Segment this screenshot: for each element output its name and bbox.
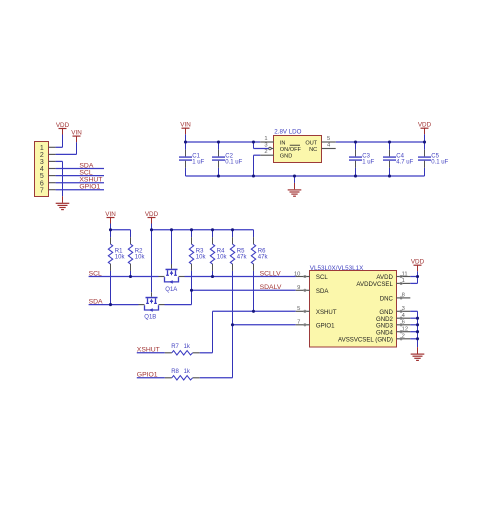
svg-text:R3: R3: [196, 249, 204, 255]
svg-text:GPIO1: GPIO1: [79, 184, 100, 191]
svg-text:R2: R2: [135, 249, 143, 255]
svg-text:SDALV: SDALV: [260, 284, 282, 291]
svg-text:R8: R8: [171, 369, 179, 375]
svg-text:7: 7: [40, 187, 44, 194]
svg-text:10k: 10k: [135, 255, 146, 261]
svg-text:ON/OFF: ON/OFF: [280, 147, 302, 153]
svg-text:5: 5: [297, 306, 300, 312]
svg-text:10: 10: [294, 271, 300, 277]
svg-text:VL53L0X/VL53L1X: VL53L0X/VL53L1X: [310, 265, 364, 272]
svg-text:VIN: VIN: [71, 130, 82, 137]
svg-text:2: 2: [40, 152, 44, 159]
svg-text:4: 4: [40, 166, 44, 173]
svg-text:1k: 1k: [184, 369, 191, 375]
svg-text:VIN: VIN: [105, 211, 116, 218]
svg-text:5: 5: [40, 173, 44, 180]
svg-text:C3: C3: [362, 153, 370, 159]
svg-text:GND: GND: [280, 153, 292, 159]
svg-text:3: 3: [40, 159, 44, 166]
svg-text:SCL: SCL: [316, 274, 328, 281]
svg-text:R1: R1: [115, 249, 123, 255]
svg-text:47k: 47k: [258, 255, 269, 261]
svg-text:Q1A: Q1A: [165, 287, 177, 293]
svg-text:GND4: GND4: [376, 329, 394, 336]
svg-text:C2: C2: [225, 153, 233, 159]
svg-text:2: 2: [264, 149, 267, 155]
svg-text:R5: R5: [237, 249, 245, 255]
svg-text:1k: 1k: [184, 344, 191, 350]
svg-text:GPIO1: GPIO1: [316, 323, 335, 330]
svg-text:IN: IN: [280, 140, 286, 146]
svg-text:VDD: VDD: [56, 122, 70, 129]
svg-text:AVDDVCSEL: AVDDVCSEL: [356, 281, 393, 288]
svg-text:XSHUT: XSHUT: [79, 177, 102, 184]
svg-text:1 uF: 1 uF: [192, 160, 204, 166]
svg-text:SDA: SDA: [316, 288, 329, 295]
svg-text:7: 7: [297, 320, 300, 326]
svg-text:1: 1: [264, 136, 267, 142]
svg-text:SCL: SCL: [79, 170, 92, 177]
svg-text:SDA: SDA: [79, 162, 93, 169]
svg-text:C1: C1: [192, 153, 200, 159]
svg-text:9: 9: [297, 285, 300, 291]
svg-text:AVSSVCSEL (GND): AVSSVCSEL (GND): [338, 337, 393, 344]
svg-text:1: 1: [40, 145, 44, 152]
svg-text:NC: NC: [309, 147, 317, 153]
svg-text:5: 5: [327, 136, 330, 142]
svg-text:0.1 uF: 0.1 uF: [225, 160, 242, 166]
svg-text:OUT: OUT: [305, 140, 317, 146]
svg-text:Q1B: Q1B: [144, 314, 156, 320]
svg-text:0.1 uF: 0.1 uF: [431, 160, 448, 166]
svg-text:R6: R6: [258, 249, 266, 255]
svg-text:47k: 47k: [237, 255, 248, 261]
svg-text:DNC: DNC: [380, 296, 394, 303]
svg-text:1 uF: 1 uF: [362, 160, 374, 166]
svg-text:SCL: SCL: [89, 270, 102, 277]
svg-text:SCLLV: SCLLV: [260, 270, 281, 277]
svg-text:SDA: SDA: [89, 298, 103, 305]
svg-text:10k: 10k: [115, 255, 126, 261]
svg-text:R7: R7: [171, 344, 179, 350]
svg-text:VDD: VDD: [145, 211, 159, 218]
svg-text:C5: C5: [431, 153, 439, 159]
svg-text:10k: 10k: [196, 255, 207, 261]
svg-text:VDD: VDD: [418, 122, 432, 129]
svg-text:C4: C4: [396, 153, 404, 159]
svg-text:VIN: VIN: [180, 122, 191, 129]
svg-text:R4: R4: [217, 249, 225, 255]
svg-text:4.7 uF: 4.7 uF: [396, 160, 413, 166]
svg-text:VDD: VDD: [411, 259, 425, 266]
svg-text:3: 3: [264, 142, 267, 148]
svg-text:2.8V LDO: 2.8V LDO: [274, 129, 301, 136]
svg-text:XSHUT: XSHUT: [316, 309, 337, 316]
svg-text:10k: 10k: [217, 255, 228, 261]
svg-text:6: 6: [40, 180, 44, 187]
